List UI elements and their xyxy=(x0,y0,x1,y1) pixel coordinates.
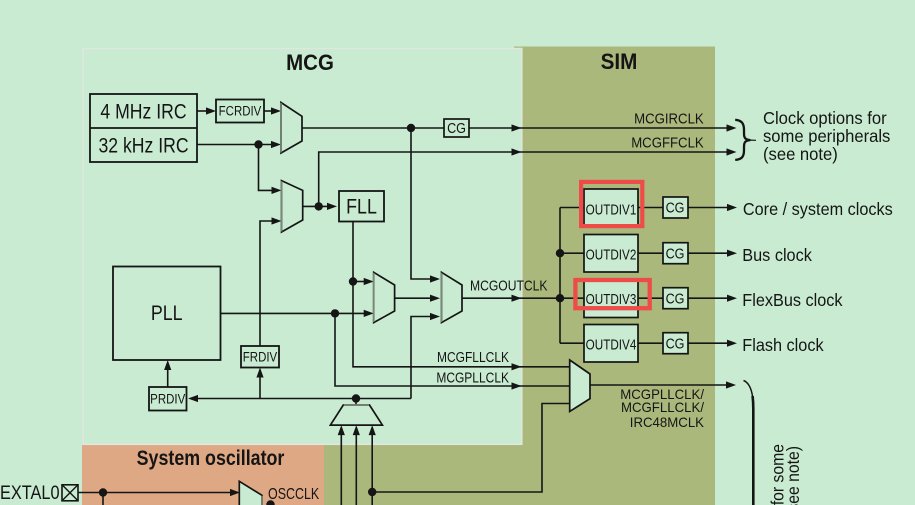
label MCGPLLCLK/MCGFLLCLK/IRC48MCLK xyxy=(620,387,704,430)
block: FLL xyxy=(339,191,384,222)
wire: 4 MHz IRC to FCRDIV xyxy=(197,107,216,114)
wire: oscillator riser 3 to trapezoid xyxy=(369,425,376,505)
block: OUTDIV4 xyxy=(584,325,638,363)
wire: PRDIV feedback line xyxy=(188,395,411,402)
block: CG2 xyxy=(663,243,688,264)
svg-text:CG: CG xyxy=(447,119,466,136)
svg-text:32 kHz IRC: 32 kHz IRC xyxy=(98,134,188,158)
block: FRDIV xyxy=(241,346,279,368)
wire: FCRDIV to mux M1 xyxy=(264,107,281,114)
mux oscillator (partial) xyxy=(239,481,262,505)
mux M1 (IRC select) xyxy=(281,103,302,154)
mux M2 (FLL source select) xyxy=(282,181,303,232)
svg-text:4 MHz IRC: 4 MHz IRC xyxy=(100,100,186,124)
pad: EXTAL0 xyxy=(62,485,78,501)
label Clock options note xyxy=(763,109,890,165)
svg-text:Clock options for: Clock options for xyxy=(763,109,887,128)
junction on 32 kHz line xyxy=(254,140,262,148)
brace for MCGIRCLK/MCGFFCLK options xyxy=(735,120,756,160)
block: FCRDIV xyxy=(216,100,264,123)
svg-text:Flash clock: Flash clock xyxy=(742,335,824,355)
svg-text:OUTDIV3: OUTDIV3 xyxy=(586,290,637,307)
wire: oscillator riser 1 to trapezoid xyxy=(338,425,345,505)
svg-text:CG: CG xyxy=(666,289,685,306)
block: CG top (MCGIRCLK gate) xyxy=(444,119,469,137)
svg-text:IRC48MCLK: IRC48MCLK xyxy=(630,415,704,430)
svg-text:CG: CG xyxy=(666,244,685,261)
wire: OUTDIV1 to CG1 xyxy=(638,207,663,209)
block: CG1 xyxy=(663,197,688,218)
svg-text:MCGFLLCLK: MCGFLLCLK xyxy=(437,349,509,366)
block: OUTDIV2 xyxy=(584,235,638,273)
wire: CG2 to Bus clock label xyxy=(688,250,737,257)
wire: MCGFFCLK net (FLL input node up and right to brace) xyxy=(319,148,737,206)
wire: MCGIRCLK net (mux M1 output through CG to brace) xyxy=(302,124,737,131)
wire: CG4 to Flash clock label xyxy=(688,340,737,347)
wire: oscillator riser 2 to trapezoid xyxy=(353,425,360,505)
svg-text:SIM: SIM xyxy=(601,49,638,74)
svg-text:OUTDIV2: OUTDIV2 xyxy=(586,246,637,263)
highlight red box OUTDIV1 xyxy=(581,182,642,226)
wire: mux M3 output to mux M4 xyxy=(395,295,440,302)
svg-text:OUTDIV1: OUTDIV1 xyxy=(586,201,637,218)
svg-text:FCRDIV: FCRDIV xyxy=(219,104,262,119)
wire: EXTAL0 to oscillator mux xyxy=(78,489,240,505)
svg-text:FlexBus clock: FlexBus clock xyxy=(742,290,843,310)
junction at FLL input xyxy=(315,202,323,210)
junction on EXTAL0 line xyxy=(99,488,107,496)
wire: CG3 to FlexBus clock label xyxy=(688,295,737,302)
svg-text:PLL: PLL xyxy=(151,302,183,326)
svg-text:MCGFFCLK: MCGFFCLK xyxy=(631,134,704,151)
svg-text:(see note): (see note) xyxy=(763,145,838,164)
block: OUTDIV1 xyxy=(584,189,638,226)
wire: mux M2 output to FLL xyxy=(303,203,337,210)
wire: OUTDIV2 to CG2 xyxy=(638,252,663,254)
svg-text:EXTAL0: EXTAL0 xyxy=(0,482,60,503)
mux M4 (CLKS select) xyxy=(442,272,463,322)
wire: OUTDIV3 to CG3 xyxy=(638,297,663,299)
wire: FLL output down, branch to mux M3 top input, MCGFLLCLK to mux M5 xyxy=(353,222,570,371)
svg-text:Bus clock: Bus clock xyxy=(742,245,812,265)
highlight red box OUTDIV3 xyxy=(575,280,649,308)
wire: MCGOUTCLK (mux M4 output into SIM divider bus) xyxy=(462,295,560,302)
wire: OUTDIV bus vertical with stubs xyxy=(560,208,584,344)
wire: 32 kHz branch down to mux M2 top input xyxy=(259,145,282,195)
brace tail for peripheral options (bottom right) xyxy=(744,381,754,505)
svg-text:peripherals (see note): peripherals (see note) xyxy=(783,446,803,505)
wire: trapezoid mux output stub xyxy=(355,399,357,406)
svg-text:CG: CG xyxy=(666,334,685,351)
svg-text:CG: CG xyxy=(666,199,685,216)
junction trapezoid output xyxy=(352,394,360,402)
wire: MCGIRCLK branch down to mux M4 top input xyxy=(411,128,440,283)
block: PRDIV xyxy=(149,387,187,411)
junction at PLL output branch xyxy=(331,309,339,317)
MCG region panel xyxy=(83,49,522,445)
svg-text:MCG: MCG xyxy=(286,51,334,76)
svg-text:FRDIV: FRDIV xyxy=(243,349,278,364)
svg-text:OSCCLK: OSCCLK xyxy=(268,486,320,504)
svg-text:Core / system clocks: Core / system clocks xyxy=(743,200,893,220)
wire: PRDIV to PLL xyxy=(164,360,171,387)
block: OUTDIV3 xyxy=(584,281,638,318)
svg-text:PRDIV: PRDIV xyxy=(150,391,186,406)
wire: riser to FRDIV xyxy=(256,368,263,399)
svg-text:MCGFLLCLK/: MCGFLLCLK/ xyxy=(621,400,704,415)
block: CG3 xyxy=(663,288,688,309)
mux trapezoid (OSCSEL) xyxy=(330,405,382,425)
wire: OUTDIV4 to CG4 xyxy=(638,342,663,344)
svg-text:MCGOUTCLK: MCGOUTCLK xyxy=(470,277,547,293)
svg-text:MCGIRCLK: MCGIRCLK xyxy=(634,110,704,127)
wire: IRC48M select line to mux M5 bottom input xyxy=(372,404,570,493)
svg-text:some peripherals: some peripherals xyxy=(763,127,890,146)
junction on MCGIRCLK at x411 xyxy=(407,124,415,132)
junction on oscillator riser xyxy=(368,488,376,496)
svg-text:OUTDIV4: OUTDIV4 xyxy=(586,336,637,353)
svg-text:System oscillator: System oscillator xyxy=(137,447,285,471)
block: CG4 xyxy=(663,333,688,354)
svg-text:MCGPLLCLK: MCGPLLCLK xyxy=(436,369,509,386)
junction at FLL-out / M3 branch xyxy=(349,277,357,285)
wire: 32 kHz IRC to mux M1 xyxy=(197,141,281,148)
SIM region xyxy=(514,47,715,505)
block: 4 MHz IRC / 32 kHz IRC xyxy=(90,94,197,162)
junction bus row2 xyxy=(556,249,564,257)
mux M5 (PLLFLLSEL) xyxy=(570,360,590,412)
mux M3 (PLLS select) xyxy=(374,272,395,322)
System oscillator region xyxy=(82,445,324,505)
wire: PLL output to mux M3, branch down as MCGPLLCLK to mux M5 xyxy=(221,310,570,390)
junction MCGOUTCLK at bus xyxy=(556,294,564,302)
wire: FRDIV up to mux M2 bottom input xyxy=(260,217,282,346)
wire: mux M5 output MCGPLLCLK/MCGFLLCLK/IRC48MCLK xyxy=(590,381,736,388)
svg-text:FLL: FLL xyxy=(346,195,377,219)
block: PLL xyxy=(113,267,221,361)
wire: CG1 to Core clocks label xyxy=(688,204,737,211)
junction below OSCCLK (partial) xyxy=(266,500,274,505)
wire: OSCSELCLK up to mux M4 bottom input xyxy=(411,313,440,399)
SIM bottom-left extension region xyxy=(324,445,524,505)
